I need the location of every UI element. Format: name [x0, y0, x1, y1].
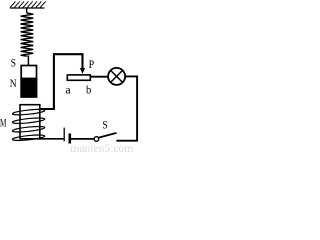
magnet N pole (black): [20, 78, 37, 98]
svg-text:P: P: [89, 57, 95, 71]
rheostat wiper arrowhead: [80, 68, 85, 74]
wire: ceiling to spring: [26, 8, 28, 13]
svg-text:S: S: [11, 55, 16, 69]
wire: battery to coil bottom: [40, 138, 64, 140]
svg-text:S: S: [102, 117, 107, 131]
ceiling support hatching: [10, 1, 46, 7]
battery negative plate (short thick): [69, 134, 72, 144]
svg-text:b: b: [86, 82, 91, 96]
coil M core box: [20, 105, 40, 139]
wire: rheostat b to lamp: [90, 76, 108, 78]
ceiling line: [10, 7, 45, 9]
svg-text:manten5.com: manten5.com: [70, 141, 134, 153]
magnet body: [21, 66, 36, 97]
wire: switch to battery: [71, 138, 94, 140]
rheostat body: [67, 75, 90, 80]
spring: [21, 13, 34, 56]
switch pivot: [94, 137, 99, 142]
svg-text:N: N: [10, 76, 17, 90]
svg-text:a: a: [65, 82, 71, 96]
svg-text:M: M: [0, 115, 7, 129]
switch lever: [98, 133, 116, 138]
battery positive plate (long): [63, 128, 65, 142]
wire: lamp right down to bottom corner: [116, 76, 137, 140]
wire: coil top to rheostat wiper P: [40, 54, 83, 109]
wire: spring to magnet: [27, 55, 29, 66]
lamp: [108, 68, 125, 85]
coil M windings: [12, 108, 45, 141]
